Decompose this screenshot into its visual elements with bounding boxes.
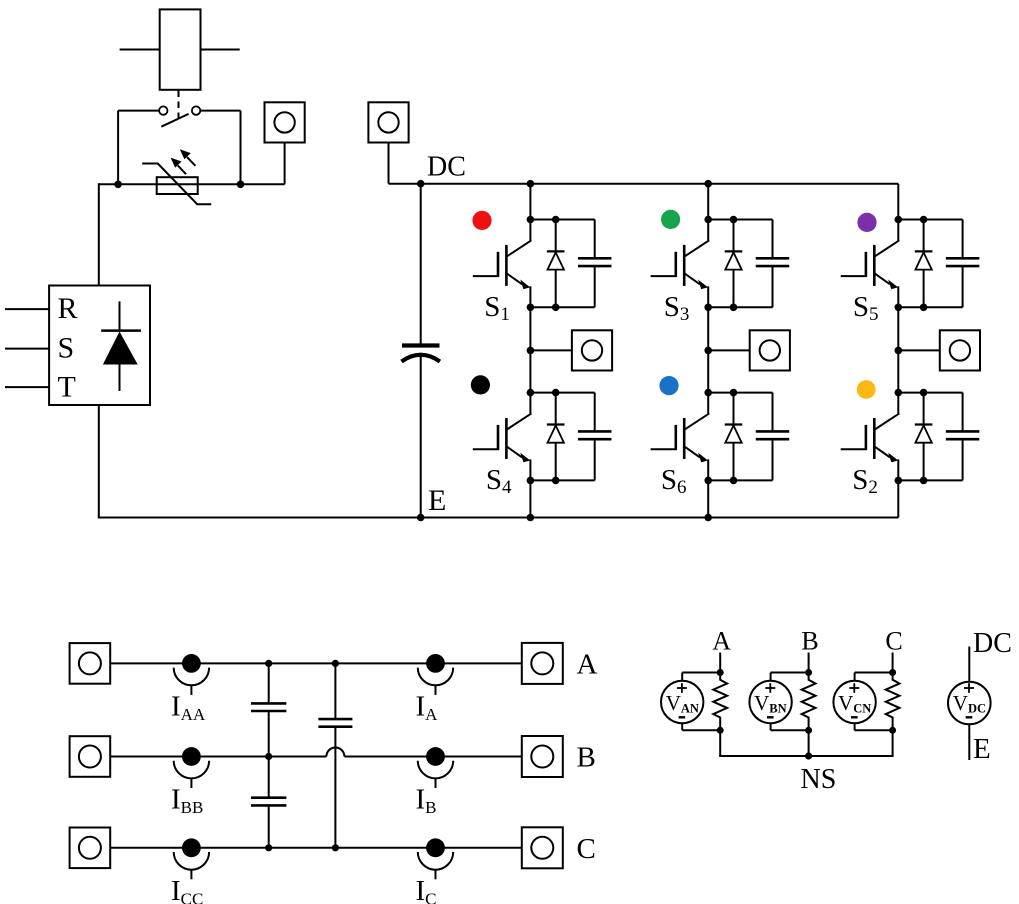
label S6 (661, 464, 687, 498)
wire right lead of T1 (201, 49, 240, 51)
wire leg 1 midsection (529, 307, 531, 392)
wire filter branch 2 (334, 663, 336, 847)
node right junction (237, 181, 245, 189)
node S3 bottom-diode (730, 304, 738, 312)
current sensor I_CC (174, 838, 209, 879)
label E (428, 484, 446, 517)
pin R stub (5, 308, 49, 310)
label S (58, 332, 75, 365)
node S2 top-diode (920, 389, 928, 397)
wire switch right to node R (200, 111, 240, 185)
svg-text:E: E (973, 733, 991, 765)
node VCN bottom (889, 727, 896, 734)
port leg 2 phase (750, 330, 790, 370)
wire arm bottom branch S5 (898, 306, 962, 308)
node S3 top-left (704, 216, 712, 224)
node S3 bottom-left (704, 304, 712, 312)
pin T stub (5, 386, 49, 388)
label I_CC (171, 875, 203, 904)
diode D4 (547, 393, 565, 481)
label DC (427, 152, 466, 183)
resistor RCN (886, 673, 900, 731)
voltmeter VAN (661, 673, 720, 731)
port leg 3 phase (940, 330, 980, 370)
node VAN bottom (717, 727, 724, 734)
snubber capacitor C3 (756, 220, 790, 308)
node branch1 row A (265, 660, 272, 667)
wire node L to rectifier top (98, 183, 100, 285)
label DC at VDC (973, 628, 1012, 659)
dc-link capacitor C0 (402, 184, 440, 518)
node S2 bottom-left (895, 477, 903, 485)
label S3 (664, 291, 690, 325)
port C inverter-side (70, 828, 111, 869)
voltmeter VBN (749, 673, 808, 731)
wire lead B (808, 653, 810, 673)
label A above VAN (712, 627, 731, 656)
node S5 bottom-diode (920, 304, 928, 312)
node S6 bottom-left (704, 477, 712, 485)
diode D1 (547, 220, 565, 308)
wire leg 3 DC drop (897, 184, 899, 220)
wire arm top branch S4 (530, 392, 594, 394)
current sensor I_C (418, 838, 453, 879)
IGBT S6 (651, 393, 710, 481)
node branch1 row C (265, 844, 272, 851)
label S4 (486, 464, 512, 498)
label I_AA (171, 690, 206, 724)
node leg 2 on DC bus (704, 180, 712, 188)
svg-text:C: C (885, 627, 902, 656)
node S5 bottom-left (895, 304, 903, 312)
arrow into varistor 1 (171, 158, 186, 175)
wire arm top branch S1 (530, 219, 594, 221)
node leg 2 on E bus (704, 514, 712, 522)
node VAN top (717, 669, 724, 676)
label B above VBN (801, 627, 818, 656)
node leg 1 on E bus (527, 514, 535, 522)
wire rectifier bottom to E bus (98, 405, 100, 518)
wire arm top branch S6 (708, 392, 772, 394)
snubber capacitor C2 (946, 393, 980, 481)
svg-text:B: B (577, 742, 596, 774)
node branch1 row B (265, 753, 272, 760)
svg-text:R: R (58, 292, 78, 325)
node S1 bottom-left (527, 304, 535, 312)
wire varistor branch (99, 183, 285, 185)
node leg 1 phase junction (527, 347, 535, 355)
label C (577, 833, 596, 865)
diode D2 (915, 393, 933, 481)
label NS (801, 764, 837, 795)
wire E bus (98, 517, 899, 519)
snubber capacitor C5 (946, 220, 980, 308)
port B load-side (522, 736, 563, 777)
wire VBN to NS bus (808, 730, 810, 756)
label S2 (852, 464, 878, 498)
node S3 top-diode (730, 216, 738, 224)
node NS (805, 752, 812, 759)
wire lead C (892, 653, 894, 673)
node left junction (114, 181, 122, 189)
node DC link top (417, 180, 425, 188)
svg-text:DC: DC (973, 628, 1012, 659)
wire DC bus (389, 183, 899, 185)
wire switch left to node L (118, 111, 159, 185)
node VBN bottom (805, 727, 812, 734)
wire leg 3 E drop (897, 480, 899, 517)
wire left lead of T1 (120, 49, 160, 51)
node S4 top-diode (552, 389, 560, 397)
current sensor I_B (418, 747, 453, 788)
node S4 bottom-left (527, 477, 535, 485)
wire leg 2 to gate port (708, 349, 750, 351)
svg-text:B: B (801, 627, 818, 656)
wire row C (110, 847, 521, 849)
pin S stub (5, 348, 49, 350)
port P1 (265, 102, 305, 184)
label I_BB (171, 784, 203, 818)
node S2 bottom-diode (920, 477, 928, 485)
IGBT S2 (841, 393, 900, 481)
svg-text:A: A (577, 649, 598, 681)
indicator dot black (471, 375, 490, 394)
rectifier block (49, 286, 150, 406)
port B inverter-side (70, 736, 111, 777)
label S5 (853, 291, 879, 325)
indicator dot yellow (857, 380, 876, 399)
svg-text:E: E (428, 484, 446, 517)
wire lead A (719, 653, 721, 673)
varistor RV1 (142, 164, 211, 205)
node leg 1 on DC bus (527, 180, 535, 188)
label R (58, 292, 78, 325)
wire arm bottom branch S2 (898, 479, 962, 481)
wire VAN to NS bus (719, 730, 721, 756)
node S1 top-diode (552, 216, 560, 224)
node S6 top-diode (730, 389, 738, 397)
label I_A (416, 690, 439, 724)
wire leg 3 midsection (897, 307, 899, 392)
diode inside rectifier (101, 301, 141, 391)
port P2 DC input (368, 102, 408, 183)
wire leg 2 DC drop (707, 184, 709, 220)
resistor RBN (802, 673, 816, 731)
IGBT S3 (651, 220, 710, 308)
wire arm top branch S5 (898, 219, 962, 221)
breaker switch SW1 (159, 106, 200, 126)
node S1 top-left (527, 216, 535, 224)
wire arm bottom branch S3 (708, 306, 772, 308)
voltmeter VDC (948, 682, 991, 725)
capacitor Cf-AB (251, 703, 286, 711)
svg-text:NS: NS (801, 764, 837, 795)
resistor RAN (713, 673, 727, 731)
dashed actuator link (178, 91, 180, 123)
label A (577, 649, 598, 681)
indicator dot red (472, 211, 491, 230)
node VBN top (805, 669, 812, 676)
svg-text:T: T (58, 371, 76, 404)
node S2 top-left (895, 389, 903, 397)
snubber capacitor C4 (578, 393, 612, 481)
node DC link bottom (417, 514, 425, 522)
wire row B with hop (110, 748, 521, 757)
label B (577, 742, 596, 774)
wire arm bottom branch S4 (530, 479, 594, 481)
node S4 bottom-diode (552, 477, 560, 485)
node S4 top-left (527, 389, 535, 397)
wire arm bottom branch S6 (708, 479, 772, 481)
indicator dot green (661, 210, 680, 229)
svg-text:S: S (58, 332, 75, 365)
indicator dot purple (857, 213, 876, 232)
current sensor I_AA (174, 654, 209, 695)
snubber capacitor C6 (756, 393, 790, 481)
wire VCN to NS bus (892, 730, 894, 756)
wire arm top branch S3 (708, 219, 772, 221)
label E at VDC (973, 733, 991, 765)
arrow into varistor 2 (180, 149, 196, 166)
wire leg 1 E drop (529, 480, 531, 517)
diode D5 (915, 220, 933, 308)
diode D6 (725, 393, 743, 481)
node leg 3 phase junction (895, 347, 903, 355)
label I_B (416, 784, 437, 818)
wire leg 3 to gate port (898, 349, 940, 351)
capacitor Cf-BC (251, 798, 286, 806)
diode D3 (725, 220, 743, 308)
IGBT S5 (841, 220, 900, 308)
current sensor I_BB (174, 747, 209, 788)
wire filter branch 1 (268, 663, 270, 847)
IGBT S1 (473, 220, 532, 308)
wire row A (110, 662, 521, 664)
node S1 bottom-diode (552, 304, 560, 312)
node branch2 row C (332, 844, 339, 851)
wire E lead of VDC (968, 724, 970, 760)
wire leg 2 midsection (707, 307, 709, 392)
label C above VCN (885, 627, 902, 656)
svg-text:C: C (577, 833, 596, 865)
node S5 top-diode (920, 216, 928, 224)
label I_C (416, 875, 437, 904)
wire arm bottom branch S1 (530, 306, 594, 308)
port A load-side (522, 643, 563, 684)
wire leg 1 DC drop (529, 184, 531, 220)
svg-text:DC: DC (427, 152, 466, 183)
wire leg 1 to gate port (530, 349, 572, 351)
wire DC lead of VDC (968, 647, 970, 682)
port C load-side (522, 827, 563, 868)
wire NS bus (719, 755, 893, 756)
node branch2 row A (332, 660, 339, 667)
wire leg 2 E drop (707, 480, 709, 517)
svg-text:A: A (712, 627, 731, 656)
node S6 top-left (704, 389, 712, 397)
label T (58, 371, 76, 404)
port leg 1 phase (572, 330, 612, 370)
voltmeter VCN (833, 673, 892, 731)
indicator dot blue (659, 376, 678, 395)
node S5 top-left (895, 216, 903, 224)
current sensor I_A (418, 654, 453, 695)
IGBT S4 (473, 393, 532, 481)
snubber capacitor C1 (578, 220, 612, 308)
node VCN top (889, 669, 896, 676)
port A inverter-side (70, 643, 111, 684)
label S1 (484, 291, 510, 325)
wire arm top branch S2 (898, 392, 962, 394)
node leg 2 phase junction (704, 347, 712, 355)
transformer block T1 (160, 9, 201, 89)
capacitor Cf-AC (318, 719, 352, 727)
node S6 bottom-diode (730, 477, 738, 485)
